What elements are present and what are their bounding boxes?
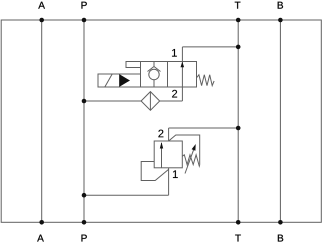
junction dot T upper [236, 45, 241, 50]
relief valve RV adjustment arrowhead [192, 144, 196, 151]
junction dot P top [82, 18, 87, 23]
valve V1 body [141, 62, 197, 88]
wire line P [83, 20, 85, 222]
valve V1 check poppet seat [148, 67, 161, 72]
junction dot A bottom [39, 220, 44, 225]
wire line T [237, 20, 239, 222]
junction dot P lower [82, 193, 87, 198]
valve V1 check ball [149, 69, 159, 79]
valve V1 manual-override tab [126, 62, 141, 68]
label T top [235, 2, 241, 9]
wire port2 to P [84, 100, 141, 102]
valve V1 spring [197, 75, 214, 86]
wire port1 to T [182, 46, 238, 48]
label T bottom [235, 235, 241, 242]
label port 1 of RV [173, 170, 178, 178]
valve V1 solenoid box [98, 74, 141, 87]
relief valve RV port1 line [168, 168, 170, 195]
relief valve RV flow arrowhead [160, 142, 163, 149]
relief valve RV body [154, 141, 182, 168]
junction dot P mid [82, 99, 87, 104]
wire RV vent to spring chamber [169, 135, 200, 165]
label A top [38, 2, 45, 9]
label B bottom [278, 235, 283, 242]
relief valve RV pilot loop [141, 162, 168, 181]
label port 1 of V1 [172, 49, 177, 57]
relief valve RV adjustment arrow [185, 150, 194, 174]
relief valve RV port2 line [168, 128, 170, 141]
valve V1 solenoid arrow [120, 74, 131, 86]
relief valve RV spring [182, 155, 199, 166]
wire RV port2 to T [169, 127, 239, 129]
junction dot B bottom [278, 220, 283, 225]
valve V1 flow path port line (1 to 2) [181, 47, 183, 101]
relief valve RV flow arrow line [161, 143, 163, 168]
screen filter diamond [141, 92, 160, 111]
label port 2 of V1 [172, 90, 177, 98]
junction dot T mid [236, 126, 241, 131]
label P top [81, 2, 86, 9]
junction dot B top [278, 18, 283, 23]
wire line B [279, 20, 281, 222]
label P bottom [81, 235, 86, 242]
junction dot T top [236, 18, 241, 23]
wire RV port1 to P [84, 194, 169, 196]
label A bottom [37, 235, 44, 242]
junction dot A top [39, 18, 44, 23]
label port 2 of RV [158, 130, 163, 138]
valve V1 flow arrowhead [181, 62, 185, 68]
label B top [278, 2, 283, 9]
wire line A [41, 20, 43, 222]
junction dot P bottom [82, 220, 87, 225]
junction dot T bottom [236, 220, 241, 225]
